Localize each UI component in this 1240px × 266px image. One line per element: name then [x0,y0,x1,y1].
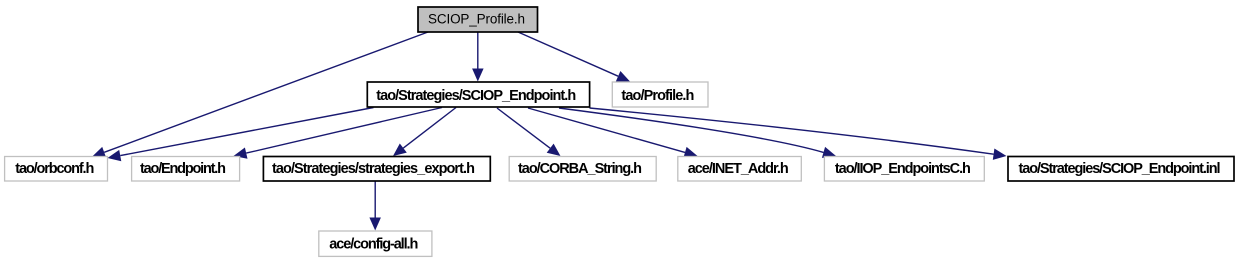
node ace/config-all.h [319,231,432,256]
edge SCIOP_Profile.h to tao/Profile.h [518,32,630,82]
edge SCIOP_Profile.h to tao/Strategies/SCIOP_Endpoint.h [472,32,484,82]
edge tao/Strategies/SCIOP_Endpoint.h to tao/Strategies/SCIOP_Endpoint.inl [590,108,1007,160]
edge SCIOP_Profile.h to tao/orbconf.h [92,32,428,158]
node tao/Endpoint.h [132,157,240,182]
svg-text:tao/CORBA_String.h: tao/CORBA_String.h [518,161,642,177]
svg-text:tao/Strategies/SCIOP_Endpoint.: tao/Strategies/SCIOP_Endpoint.inl [1019,161,1221,177]
svg-text:tao/Strategies/strategies_expo: tao/Strategies/strategies_export.h [272,161,475,177]
svg-text:tao/orbconf.h: tao/orbconf.h [15,161,94,177]
svg-text:ace/INET_Addr.h: ace/INET_Addr.h [688,161,789,177]
edge tao/Strategies/SCIOP_Endpoint.h to tao/IIOP_EndpointsC.h [559,108,836,158]
edge tao/Strategies/SCIOP_Endpoint.h to ace/INET_Addr.h [528,108,698,158]
svg-text:ace/config-all.h: ace/config-all.h [329,236,418,252]
node SCIOP_Profile.h [418,7,538,32]
node tao/Profile.h [612,82,708,107]
node tao/Strategies/strategies_export.h [263,157,490,182]
edge tao/Strategies/SCIOP_Endpoint.h to tao/orbconf.h [108,108,374,162]
node tao/Strategies/SCIOP_Endpoint.h [367,82,589,107]
node tao/CORBA_String.h [509,157,656,182]
node ace/INET_Addr.h [678,157,802,182]
svg-text:SCIOP_Profile.h: SCIOP_Profile.h [428,11,525,26]
edge tao/Strategies/SCIOP_Endpoint.h to tao/Endpoint.h [234,108,443,159]
node tao/IIOP_EndpointsC.h [824,157,984,182]
svg-text:tao/Strategies/SCIOP_Endpoint.: tao/Strategies/SCIOP_Endpoint.h [376,88,576,104]
edge tao/Strategies/SCIOP_Endpoint.h to tao/Strategies/strategies_export.h [393,108,456,157]
svg-text:tao/Endpoint.h: tao/Endpoint.h [140,161,226,177]
node tao/orbconf.h [5,157,108,182]
node tao/Strategies/SCIOP_Endpoint.inl [1008,157,1234,182]
svg-text:tao/IIOP_EndpointsC.h: tao/IIOP_EndpointsC.h [835,161,971,177]
edge tao/Strategies/SCIOP_Endpoint.h to tao/CORBA_String.h [497,108,561,156]
svg-text:tao/Profile.h: tao/Profile.h [621,88,694,104]
edge tao/Strategies/strategies_export.h to ace/config-all.h [369,181,381,231]
